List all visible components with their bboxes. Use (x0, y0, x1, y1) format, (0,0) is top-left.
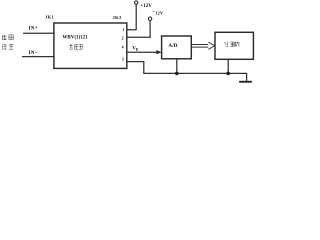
wire pin2 to -12V (127, 21, 150, 38)
computer block 计算机 (215, 32, 253, 59)
wire bus to ground (246, 73, 248, 81)
A/D converter block (162, 36, 192, 59)
ground bus wire (143, 72, 246, 74)
svg-text:Vg: Vg (132, 46, 138, 51)
svg-text:3: 3 (122, 56, 124, 61)
wire IN+ (23, 32, 54, 34)
svg-text:1: 1 (122, 27, 124, 32)
label 计算机 (hand-drawn CJK strokes) (225, 42, 239, 47)
wire computer ground stem (227, 59, 229, 73)
svg-text:4: 4 (122, 45, 124, 50)
ground symbol (239, 81, 252, 83)
svg-text:+12V: +12V (140, 4, 152, 9)
junction dot computer-bus (226, 72, 230, 76)
svg-text:JK2: JK2 (113, 15, 122, 20)
wire IN- (22, 56, 54, 58)
wire Vg pin4 to A/D (127, 51, 158, 53)
svg-text:2: 2 (122, 36, 124, 41)
svg-text:IN+: IN+ (29, 27, 38, 32)
wire A/D ground stem (176, 59, 178, 74)
terminal -12V circle (148, 17, 151, 20)
bus arrow A/D to computer (hollow) (191, 42, 214, 49)
label 传感器 (hand-drawn CJK strokes) (70, 44, 83, 49)
svg-text:JK1: JK1 (45, 14, 54, 19)
svg-text:IN−: IN− (29, 51, 38, 56)
wire pin3 down to bus (127, 62, 144, 74)
wire pin1 to +12V (127, 4, 136, 30)
arrowhead into A/D (156, 50, 161, 54)
node 被测信号 label (hand-drawn CJK strokes) (2, 35, 13, 50)
svg-text:WBV(1)121: WBV(1)121 (62, 36, 88, 41)
svg-text:−12V: −12V (152, 10, 163, 15)
junction dot A/D-bus (175, 72, 179, 76)
svg-text:A/D: A/D (168, 43, 177, 49)
terminal +12V circle (135, 1, 138, 4)
sensor block U1 WBV(1)121 (54, 23, 127, 68)
